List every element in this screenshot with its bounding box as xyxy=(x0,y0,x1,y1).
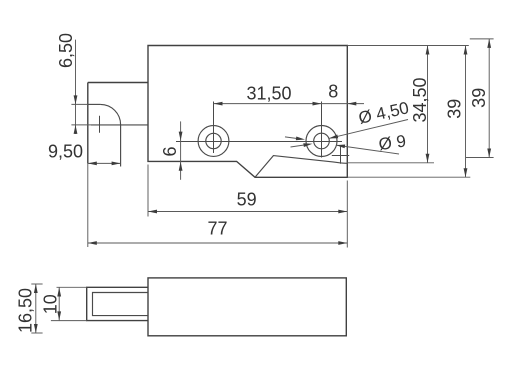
svg-text:34,50: 34,50 xyxy=(410,77,430,122)
extension line 6,50 bottom xyxy=(71,124,91,126)
dimension 6 line xyxy=(180,121,182,179)
leader Ø9 line xyxy=(336,145,399,154)
dimension 10 line xyxy=(58,288,60,321)
leader Ø4,50 line xyxy=(329,120,408,139)
extension line 6,50 top xyxy=(71,103,87,105)
svg-text:6: 6 xyxy=(160,146,180,156)
dimension 39b line xyxy=(488,39,490,158)
bolt corner vertical edge xyxy=(120,125,122,167)
extension stub 16,50 bottom xyxy=(31,332,42,334)
leader Ø4,50 arrow xyxy=(329,135,338,139)
dimension 31,50 arrows xyxy=(214,102,223,106)
hole H1 inner circle xyxy=(206,133,221,148)
svg-text:10: 10 xyxy=(40,294,60,314)
extension line 10 top xyxy=(57,286,87,288)
horizontal centerline through holes xyxy=(176,140,342,142)
diameter arrow left of hole H2 upper xyxy=(285,137,298,139)
dimension 39a arrows xyxy=(464,46,468,55)
extension line 34,50 bottom xyxy=(347,162,434,164)
leader Ø9 arrow xyxy=(336,145,345,149)
svg-text:39: 39 xyxy=(469,88,489,108)
svg-text:77: 77 xyxy=(207,219,227,239)
bolt mid edge line to housing xyxy=(91,124,148,126)
dimension 59 line xyxy=(148,211,347,213)
dimension 9,50 arrows xyxy=(88,162,97,166)
extension line 39b bottom xyxy=(466,157,494,159)
dimension 77 line xyxy=(88,242,348,244)
extension line 59 left xyxy=(147,165,149,217)
svg-text:6,50: 6,50 xyxy=(56,33,76,68)
extension line 59/77 right xyxy=(346,181,348,248)
bolt outer profile (side view) xyxy=(87,287,148,320)
dimension 8 outside arrow xyxy=(347,102,356,106)
bolt front edge xyxy=(87,83,89,164)
housing body outline (top view) xyxy=(148,46,347,178)
dimension 6,50 line xyxy=(75,40,77,134)
extension stub 16,50 top xyxy=(31,283,42,285)
hole H1 outer circle xyxy=(198,126,229,157)
hole H2 outer circle xyxy=(306,126,337,157)
hole H2 vertical centerline xyxy=(321,102,323,158)
dimension 31,50 / 8 line xyxy=(214,103,365,105)
bolt top slot edge xyxy=(88,82,148,84)
extension line top edge right xyxy=(347,45,469,47)
spring arc center mark xyxy=(332,145,349,164)
svg-text:31,50: 31,50 xyxy=(246,84,291,104)
dimension 16,50 line xyxy=(35,284,37,333)
svg-text:39: 39 xyxy=(445,99,465,119)
bolt inner slot (side view) xyxy=(93,293,149,316)
housing body outline (side view) xyxy=(148,278,346,336)
dimension 34,50 line xyxy=(427,46,429,163)
spring plate (notch) xyxy=(255,156,347,178)
hole H2 inner circle xyxy=(314,133,330,149)
dimension 10 arrows xyxy=(57,288,61,297)
bolt front edge extension (77 dim) xyxy=(87,163,89,247)
dimension 39b arrows xyxy=(487,39,491,48)
dimension 6 arrows xyxy=(179,132,183,141)
dimension 9,50 line xyxy=(88,162,121,164)
dimension 39a line xyxy=(465,46,467,178)
svg-text:Ø 9: Ø 9 xyxy=(377,131,407,154)
svg-text:Ø 4,50: Ø 4,50 xyxy=(357,98,411,128)
extension line 39b top xyxy=(470,38,494,40)
dimension 6,50 arrows xyxy=(74,95,78,104)
arc center mark cross xyxy=(99,116,101,133)
bolt rounded corner top edge xyxy=(88,103,101,105)
dimension 34,50 arrows xyxy=(426,46,430,55)
svg-text:9,50: 9,50 xyxy=(48,142,83,162)
hole H1 vertical centerline xyxy=(213,102,215,154)
dimension 16,50 arrows xyxy=(34,284,38,293)
svg-text:16,50: 16,50 xyxy=(16,288,36,333)
svg-text:59: 59 xyxy=(237,189,257,209)
extension line 10 bottom xyxy=(51,320,87,322)
extension line body bottom right xyxy=(347,176,470,178)
dimension 59 arrows xyxy=(148,210,157,214)
bolt corner arc r20 xyxy=(100,104,120,124)
diameter arrow left of hole H2 lower xyxy=(291,145,306,147)
dimension 77 arrows xyxy=(88,241,97,245)
svg-text:8: 8 xyxy=(328,82,338,102)
